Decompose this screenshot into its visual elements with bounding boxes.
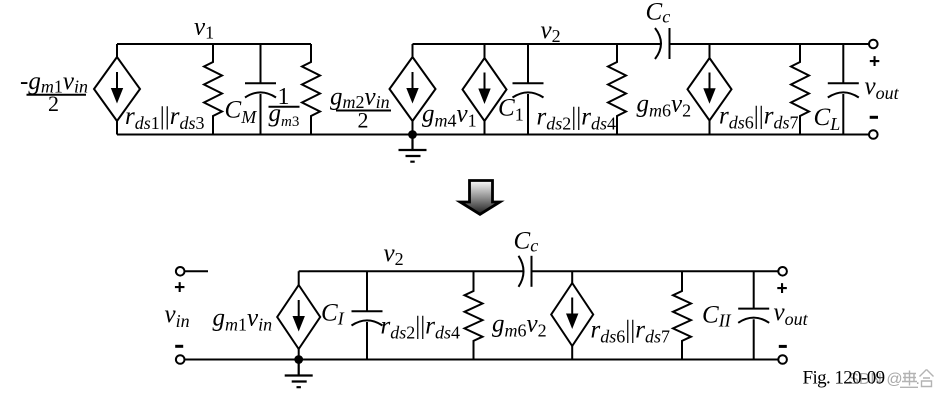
label + vin -: [165, 278, 190, 348]
svg-text:Cc: Cc: [646, 0, 671, 27]
capacitor Cc (series, bottom circuit): [519, 256, 532, 287]
svg-text:rds2||rds4: rds2||rds4: [537, 104, 617, 134]
svg-text:Cc: Cc: [514, 228, 539, 256]
svg-text:CII: CII: [702, 302, 732, 331]
svg-text:rds6||rds7: rds6||rds7: [719, 103, 799, 133]
svg-text:gm6v2: gm6v2: [637, 91, 692, 121]
svg-text:CI: CI: [321, 300, 345, 329]
svg-text:gm4v1: gm4v1: [422, 101, 477, 131]
wire vin+ stub: [185, 270, 209, 272]
svg-text:CM: CM: [225, 97, 258, 128]
capacitor Cc (series, top circuit): [655, 28, 670, 59]
wire net v2 left of Cc: [413, 43, 661, 45]
svg-text:rds1||rds3: rds1||rds3: [125, 103, 205, 133]
junction dot: [408, 130, 417, 139]
svg-text:v2: v2: [384, 240, 404, 269]
current source gm2vin/2: [390, 44, 436, 135]
capacitor C1: [513, 44, 544, 135]
svg-text:CL: CL: [814, 104, 841, 134]
svg-text:v2: v2: [541, 17, 561, 46]
svg-text:+: +: [869, 52, 880, 73]
wire output net right of Cc (bottom circuit): [532, 270, 779, 272]
svg-text:v1: v1: [194, 14, 214, 43]
capacitor CI: [352, 271, 383, 359]
resistor rds2||rds4: [608, 44, 626, 135]
capacitor CL: [828, 44, 859, 135]
label + vout - (top circuit): [865, 52, 900, 119]
svg-text:gm6v2: gm6v2: [492, 311, 547, 341]
svg-text:vout: vout: [774, 299, 809, 329]
svg-text:C1: C1: [498, 95, 524, 125]
svg-text:rds2||rds4: rds2||rds4: [381, 313, 461, 343]
svg-text:vout: vout: [865, 73, 900, 103]
svg-text:gm1vin: gm1vin: [213, 305, 273, 335]
current source gm4v1: [463, 44, 507, 135]
resistor rds2||rds4 (bottom): [465, 271, 483, 359]
svg-text:.: .: [916, 371, 920, 388]
resistor rds6||rds7 (bottom): [673, 271, 691, 359]
resistor rds1||rds3: [204, 44, 222, 135]
label 1/gm3: [269, 84, 300, 130]
terminal vin-: [176, 355, 185, 364]
terminal vout- (bottom circuit): [778, 355, 787, 364]
wire bottom rail (top circuit): [117, 134, 869, 136]
svg-text:rds6||rds7: rds6||rds7: [591, 317, 671, 347]
terminal vout+ (bottom circuit): [778, 267, 787, 276]
svg-text:+: +: [174, 278, 185, 299]
capacitor CII: [738, 271, 769, 359]
terminal vout+ (top circuit): [869, 40, 878, 49]
wire bottom rail (bottom circuit): [185, 359, 779, 361]
svg-text:Fig. 120-09: Fig. 120-09: [803, 368, 885, 389]
svg-text:2: 2: [48, 91, 59, 116]
resistor 1/gm3: [302, 44, 320, 135]
resistor rds6||rds7: [791, 44, 809, 135]
watermark gray text: [848, 370, 933, 389]
wire output net right of Cc (top circuit): [670, 43, 870, 45]
current source gm6v2 (bottom circuit): [551, 271, 593, 359]
label -gm1vin/2: [20, 68, 88, 116]
svg-text:+: +: [776, 279, 787, 300]
label + vout - (bottom circuit): [774, 279, 809, 348]
label gm2vin/2: [330, 84, 391, 133]
wire net v2 left of Cc (bottom circuit): [299, 270, 523, 272]
current source gm6v2 (top circuit): [688, 44, 732, 135]
svg-text:2: 2: [358, 108, 369, 133]
current source -gm1vin/2: [94, 44, 140, 135]
junction dot (bottom circuit): [294, 355, 303, 364]
ground (bottom circuit): [285, 360, 313, 388]
svg-text:vin: vin: [165, 301, 190, 331]
current source gm1vin: [277, 271, 320, 359]
terminal vin+: [176, 267, 185, 276]
ground (top circuit): [399, 135, 427, 162]
big gray block arrow: [460, 181, 500, 215]
capacitor CM: [245, 44, 276, 135]
wire top net v1: [117, 43, 311, 45]
terminal vout- (top circuit): [869, 130, 878, 139]
